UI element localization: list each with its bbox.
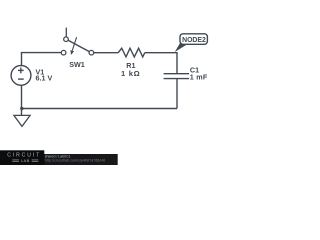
switch terminal left (pin 1) (61, 50, 66, 55)
voltage source V1 (11, 66, 31, 86)
svg-text:LAB: LAB (21, 158, 30, 163)
switch blade (68, 40, 89, 51)
svg-text:http://circuitlab.com/c/p4b87a: http://circuitlab.com/c/p4b87a766c46 (45, 158, 106, 162)
switch actuator arrowhead (70, 50, 74, 55)
wire left vertical from V1 bottom to bottom rail (21, 85, 23, 108)
logo side lines (12, 160, 38, 161)
svg-text:NODE2: NODE2 (182, 37, 206, 44)
watermark logo box (0, 150, 44, 165)
watermark bar (0, 154, 118, 165)
wire ground stub (21, 109, 23, 116)
svg-text:1 mF: 1 mF (190, 73, 208, 82)
switch terminal right (pin 2) (89, 50, 94, 55)
labels (36, 37, 208, 82)
switch actuator arrow (72, 37, 76, 50)
capacitor C1 plates (164, 73, 190, 75)
wire top rail middle segment (switch to resistor) (94, 52, 119, 54)
wire top-left vertical from V1 to top rail (21, 53, 23, 66)
svg-text:SW1: SW1 (69, 60, 85, 69)
svg-text:1 kΩ: 1 kΩ (121, 69, 140, 78)
node NODE2 flag (175, 42, 187, 53)
wire right vertical below capacitor (176, 79, 178, 109)
svg-text:6.1 V: 6.1 V (36, 73, 53, 82)
switch SW1 (61, 28, 93, 55)
switch terminal top (pin 3) (64, 37, 69, 42)
wire top rail left segment (21, 52, 62, 54)
resistor R1 (118, 48, 145, 57)
wire top rail right segment (resistor to corner) (145, 53, 177, 73)
wire switch top stub (65, 28, 67, 37)
wire bottom rail (22, 108, 178, 110)
ground (14, 115, 30, 126)
node junction dot (20, 107, 23, 110)
